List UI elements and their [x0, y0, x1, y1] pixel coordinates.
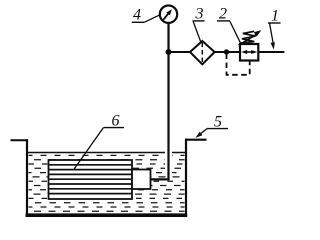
label 4: [132, 7, 160, 24]
svg-text:3: 3: [195, 5, 204, 22]
wire: main line junction to filter: [169, 51, 191, 53]
pilot line (dashed feedback loop): [227, 54, 250, 75]
regulator spring: [241, 31, 256, 43]
svg-text:6: 6: [112, 112, 120, 129]
svg-text:4: 4: [133, 7, 141, 24]
label 6: [74, 112, 125, 170]
label 3: [193, 5, 205, 42]
label 5 (with arrow to tank flange): [196, 113, 229, 138]
label 2: [217, 5, 241, 43]
liquid hatching: [29, 155, 185, 211]
tank 5: bottom: [26, 213, 188, 217]
tank 5: right wall: [185, 139, 187, 217]
wire: outlet line 1: [258, 51, 284, 53]
suction pipe: [151, 23, 169, 179]
wire: main line filter to regulator: [215, 51, 240, 53]
suction pipe (white halo): [165, 144, 172, 176]
filter 3: [190, 41, 215, 64]
node: pilot tap junction: [224, 49, 229, 54]
svg-text:5: 5: [214, 113, 222, 130]
label 1 (with arrow to line): [268, 7, 281, 49]
motor outlet box: [132, 170, 151, 190]
svg-text:2: 2: [219, 5, 227, 22]
node: gauge/main-line junction: [166, 49, 172, 55]
svg-text:1: 1: [271, 7, 279, 24]
tank 5: left flange: [11, 139, 29, 141]
submerged motor 6: [49, 160, 133, 199]
tank 5: left wall: [26, 139, 28, 216]
pressure gauge 4: [160, 6, 177, 23]
tank 5: right flange: [185, 139, 207, 141]
spring adjustment arrow: [239, 30, 262, 45]
liquid level line: [28, 152, 185, 154]
pressure regulator 2: [240, 44, 258, 61]
